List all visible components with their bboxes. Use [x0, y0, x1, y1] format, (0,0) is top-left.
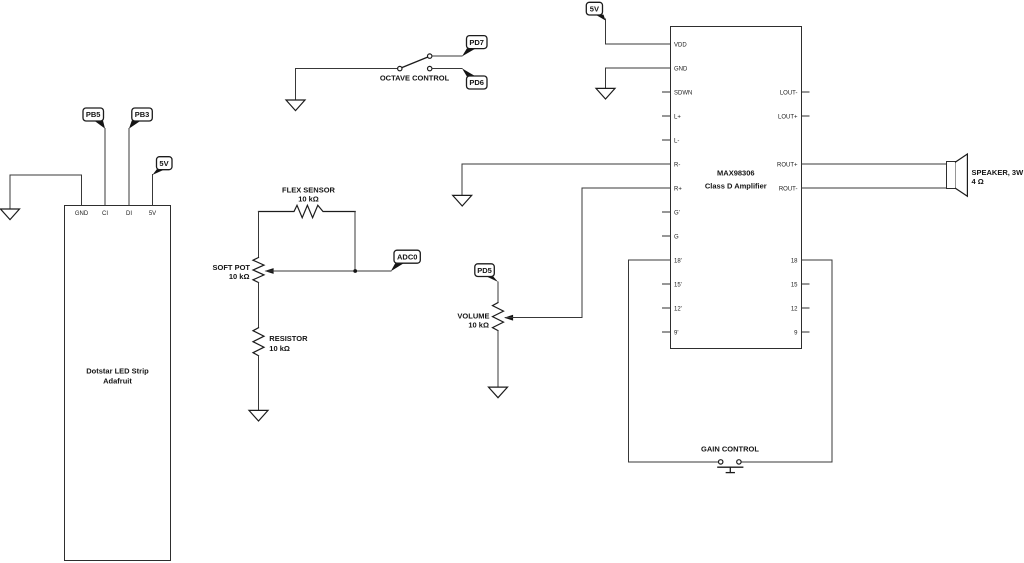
- pin stub L-: [663, 139, 671, 141]
- svg-text:SPEAKER, 3W: SPEAKER, 3W: [972, 168, 1024, 177]
- wire 5V to amp VDD: [606, 19, 671, 44]
- svg-text:RESISTOR: RESISTOR: [269, 334, 308, 343]
- wire volume wiper to amp R+: [506, 188, 671, 318]
- wire octave upper throw to PD7: [432, 55, 462, 57]
- svg-text:4 Ω: 4 Ω: [972, 177, 984, 186]
- pin stub G': [663, 211, 671, 213]
- flag 5V (LED strip): [153, 157, 173, 175]
- svg-text:18: 18: [791, 258, 798, 264]
- svg-text:ROUT-: ROUT-: [779, 186, 798, 192]
- pin stub LOUT+: [802, 115, 810, 117]
- ground (R-): [453, 195, 472, 206]
- svg-text:VOLUME: VOLUME: [457, 311, 489, 320]
- svg-text:PB5: PB5: [86, 110, 101, 119]
- svg-text:G': G': [674, 210, 680, 216]
- svg-text:SDWN: SDWN: [674, 90, 692, 96]
- pin stub 12: [802, 307, 810, 309]
- resistor FLEX SENSOR 10 kΩ: [259, 186, 356, 218]
- svg-text:15: 15: [791, 282, 798, 288]
- ground (volume): [489, 387, 508, 398]
- ground (octave control): [286, 100, 305, 111]
- wire flex right side down to junction: [354, 212, 356, 272]
- IC MAX98306 Class D Amplifier: [671, 27, 802, 349]
- pin stub LOUT-: [802, 91, 810, 93]
- wire LED CI up: [104, 128, 106, 205]
- svg-text:10 kΩ: 10 kΩ: [229, 272, 250, 281]
- wire LED 5V up: [152, 175, 154, 205]
- svg-text:L-: L-: [674, 138, 679, 144]
- flag 5V (amplifier): [586, 2, 605, 20]
- svg-text:5V: 5V: [149, 211, 156, 217]
- flag PB3: [129, 108, 152, 129]
- wire amp 18 to gain switch: [741, 260, 832, 462]
- potentiometer SOFT POT 10 kΩ: [213, 258, 274, 283]
- svg-text:R-: R-: [674, 162, 680, 168]
- pin stub L+: [663, 115, 671, 117]
- svg-text:Class D Amplifier: Class D Amplifier: [705, 181, 767, 190]
- flag PD5: [475, 264, 498, 282]
- wire amp ROUT+ to speaker: [802, 163, 947, 165]
- pin stub SDWN: [663, 91, 671, 93]
- svg-text:Dotstar LED Strip: Dotstar LED Strip: [86, 367, 149, 376]
- wire PD5 to volume pot: [497, 282, 499, 303]
- flag PD6: [462, 68, 487, 89]
- part Dotstar LED Strip (Adafruit): [65, 206, 171, 561]
- svg-text:10 kΩ: 10 kΩ: [298, 195, 319, 204]
- wire amp R- to ground: [462, 164, 670, 195]
- wire soft pot wiper to ADC0: [266, 270, 391, 272]
- pin stub 15: [802, 283, 810, 285]
- switch OCTAVE CONTROL (SPDT): [380, 54, 450, 83]
- svg-text:GND: GND: [75, 211, 89, 217]
- svg-text:10 kΩ: 10 kΩ: [468, 320, 489, 329]
- svg-text:GND: GND: [674, 66, 688, 72]
- svg-text:R+: R+: [674, 186, 682, 192]
- flag ADC0: [391, 250, 421, 271]
- svg-text:5V: 5V: [590, 4, 599, 13]
- speaker SPEAKER, 3W 4Ω: [947, 154, 1024, 196]
- flag PD7: [462, 36, 487, 57]
- wire volume pot to ground: [497, 331, 499, 388]
- wire amp GND to ground: [606, 68, 671, 88]
- pin stub 9': [663, 331, 671, 333]
- svg-text:OCTAVE CONTROL: OCTAVE CONTROL: [380, 74, 450, 83]
- wire resistor to ground: [258, 356, 260, 411]
- pushbutton GAIN CONTROL: [701, 444, 759, 472]
- svg-text:10 kΩ: 10 kΩ: [269, 344, 290, 353]
- svg-text:12: 12: [791, 306, 798, 312]
- pin stub 12': [663, 307, 671, 309]
- ground (amplifier): [596, 88, 615, 99]
- svg-text:PD6: PD6: [469, 78, 484, 87]
- flag PB5: [83, 108, 105, 129]
- svg-text:Adafruit: Adafruit: [103, 377, 132, 386]
- junction node (flex/wiper): [353, 269, 357, 273]
- svg-text:VDD: VDD: [674, 42, 687, 48]
- pin stub 9: [802, 331, 810, 333]
- pin stub 15': [663, 283, 671, 285]
- svg-text:GAIN CONTROL: GAIN CONTROL: [701, 444, 759, 453]
- svg-text:9': 9': [674, 330, 678, 336]
- svg-text:LOUT-: LOUT-: [780, 90, 798, 96]
- ground (LED strip): [1, 209, 20, 220]
- svg-text:18': 18': [674, 258, 682, 264]
- potentiometer VOLUME 10 kΩ: [457, 303, 513, 331]
- svg-text:ROUT+: ROUT+: [777, 162, 798, 168]
- svg-text:L+: L+: [674, 114, 681, 120]
- svg-text:DI: DI: [126, 211, 132, 217]
- svg-text:SOFT POT: SOFT POT: [213, 263, 251, 272]
- pin stub G: [663, 235, 671, 237]
- wire soft pot to resistor: [258, 283, 260, 328]
- svg-text:PD5: PD5: [477, 266, 492, 275]
- svg-text:12': 12': [674, 306, 682, 312]
- wire octave common to ground: [296, 69, 398, 100]
- svg-text:15': 15': [674, 282, 682, 288]
- resistor RESISTOR 10 kΩ: [253, 328, 308, 356]
- svg-text:CI: CI: [102, 211, 108, 217]
- wire LED GND to ground: [10, 175, 82, 209]
- ground (resistor): [249, 410, 268, 421]
- wire amp ROUT- to speaker: [802, 187, 947, 189]
- wire octave lower throw to PD6: [432, 68, 462, 70]
- svg-text:MAX98306: MAX98306: [717, 169, 755, 178]
- svg-text:ADC0: ADC0: [397, 252, 417, 261]
- svg-text:FLEX SENSOR: FLEX SENSOR: [282, 186, 336, 195]
- wire flex left side down to soft pot: [258, 212, 260, 258]
- svg-text:G: G: [674, 234, 679, 240]
- svg-text:PB3: PB3: [135, 110, 150, 119]
- wire LED DI up: [128, 128, 130, 205]
- svg-text:PD7: PD7: [469, 38, 484, 47]
- wire amp 18' to gain switch: [629, 260, 719, 462]
- svg-text:5V: 5V: [159, 159, 168, 168]
- svg-text:LOUT+: LOUT+: [778, 114, 798, 120]
